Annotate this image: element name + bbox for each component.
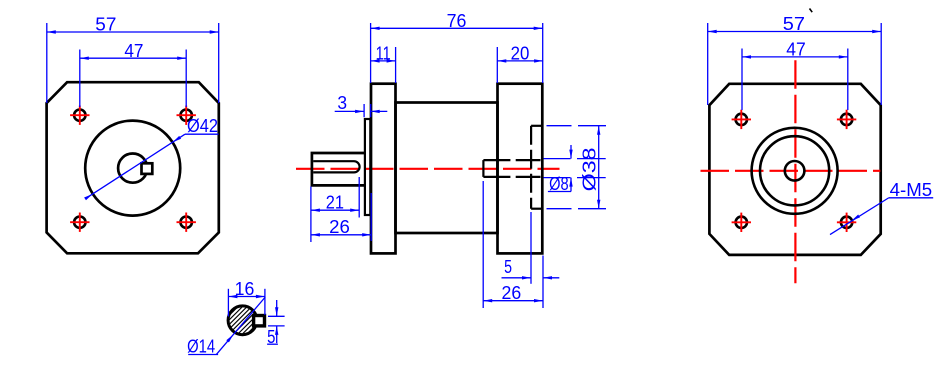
mounting hole left view 4 — [181, 217, 192, 228]
svg-text:16: 16 — [235, 279, 255, 299]
svg-text:5: 5 — [267, 327, 275, 347]
mounting hole right view 4 — [841, 217, 852, 228]
svg-text:76: 76 — [447, 11, 467, 31]
label 4-M5 leader — [830, 198, 888, 235]
dim 5 rear recess — [530, 212, 532, 284]
center hole d8 right view — [785, 161, 805, 181]
mounting hole right view 2 — [841, 114, 852, 125]
mounting hole left view 2 — [181, 110, 192, 121]
right view flange outline — [709, 84, 880, 255]
stray tick mark — [810, 9, 813, 13]
key side square detail — [254, 316, 265, 326]
dim 57 right view — [707, 23, 709, 105]
dim 26 rear — [482, 181, 484, 308]
svg-text:Ø42: Ø42 — [187, 116, 218, 136]
hidden hole d8 bottom — [483, 176, 540, 178]
svg-text:21: 21 — [326, 192, 344, 212]
mounting hole right view 1 — [736, 114, 747, 125]
svg-text:4-M5: 4-M5 — [890, 180, 933, 200]
dim 5 detail — [268, 315, 285, 317]
svg-text:Ø14: Ø14 — [187, 337, 215, 357]
hidden hole d8 end cap — [482, 160, 484, 177]
rear recess step top — [531, 125, 542, 127]
dim 3 — [363, 104, 365, 117]
shaft flat milled — [313, 161, 359, 172]
svg-text:26: 26 — [502, 283, 522, 303]
red centerline vertical right view — [794, 60, 796, 283]
dim 76 — [370, 23, 372, 83]
dim 47 right view — [741, 49, 743, 111]
shaft section circle d14 — [228, 306, 257, 335]
front flange plate — [371, 84, 396, 254]
dim d38 — [547, 125, 572, 127]
svg-text:20: 20 — [511, 44, 530, 64]
front small plate — [365, 119, 370, 215]
dim 26 shaft — [370, 193, 372, 241]
leader d14 — [217, 297, 266, 354]
mounting hole left view 3 — [74, 217, 85, 228]
mounting hole left view 1 — [74, 110, 85, 121]
svg-text:47: 47 — [124, 41, 143, 61]
mounting hole right view 3 — [736, 217, 747, 228]
svg-text:57: 57 — [95, 15, 116, 35]
svg-text:47: 47 — [786, 40, 806, 60]
svg-text:57: 57 — [783, 14, 805, 34]
svg-text:3: 3 — [337, 93, 347, 113]
dim 20 — [496, 47, 498, 83]
shaft key square — [142, 163, 153, 174]
dim 11 — [395, 47, 397, 83]
red centerline horizontal right view — [701, 170, 881, 172]
left view flange outline — [47, 82, 219, 253]
hidden hole d8 top — [483, 159, 540, 161]
shaft side view — [312, 153, 365, 185]
shaft circle — [118, 154, 147, 183]
boss circle d38 right view — [752, 128, 838, 214]
rear recess step bottom — [531, 208, 542, 210]
svg-text:26: 26 — [329, 217, 350, 237]
dim 47 left view — [79, 50, 81, 108]
dim 21 — [310, 187, 312, 243]
dim 57 left view — [46, 23, 48, 103]
leader line d42 — [86, 134, 185, 198]
dim d8 — [544, 158, 571, 160]
svg-text:5: 5 — [504, 257, 512, 277]
gearbox body — [396, 103, 498, 234]
recess circle right view — [760, 136, 829, 205]
rear recess hidden vertical — [530, 126, 532, 209]
svg-text:Ø38: Ø38 — [580, 147, 600, 191]
svg-text:Ø8: Ø8 — [549, 174, 569, 194]
svg-text:11: 11 — [376, 44, 391, 64]
red centerline middle view — [296, 168, 560, 170]
dim 16 detail — [227, 289, 229, 317]
rear flange plate — [498, 84, 543, 254]
pilot circle d42 — [85, 121, 180, 216]
